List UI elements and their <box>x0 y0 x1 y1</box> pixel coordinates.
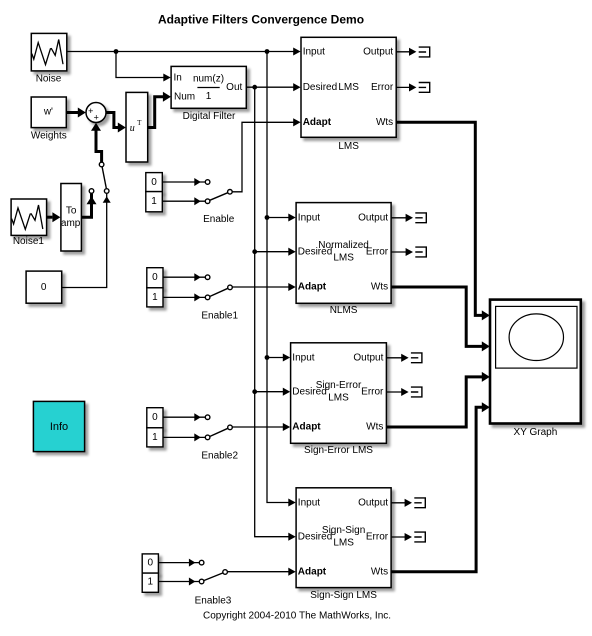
wire Enable3 const1 to switch <box>158 578 199 586</box>
svg-text:Input: Input <box>298 212 320 223</box>
source block Noise <box>31 33 67 84</box>
Enable2 constant 0 <box>147 408 163 428</box>
block XY Graph <box>490 300 581 438</box>
node busB to NLMS <box>252 249 257 254</box>
svg-text:Enable: Enable <box>203 214 235 225</box>
Enable2 manual switch <box>205 415 232 440</box>
svg-text:Output: Output <box>358 212 388 223</box>
svg-text:Enable1: Enable1 <box>201 311 238 322</box>
svg-text:Input: Input <box>303 46 325 57</box>
Enable1 manual switch <box>205 275 232 300</box>
wire Enable2 const0 to switch <box>163 413 205 421</box>
wire Enable2 switch to Sign-Error Adapt <box>233 423 291 431</box>
block NLMS <box>296 203 391 317</box>
wire Weights to Sum (thick) <box>66 108 86 118</box>
svg-text:XY Graph: XY Graph <box>514 427 558 438</box>
node junction on Noise wire (to Digital Filter) <box>114 49 119 54</box>
svg-text:Noise1: Noise1 <box>13 236 45 247</box>
terminator (Sign-Error Output) <box>386 353 422 363</box>
svg-text:1: 1 <box>152 432 158 443</box>
svg-text:Wts: Wts <box>371 282 388 293</box>
wire Enable2 const1 to switch <box>163 433 205 441</box>
svg-text:1: 1 <box>152 292 158 303</box>
svg-text:LMS: LMS <box>333 253 354 264</box>
svg-text:To: To <box>66 206 77 217</box>
svg-text:Adapt: Adapt <box>298 566 327 577</box>
svg-text:Normalized: Normalized <box>318 240 369 251</box>
svg-text:Wts: Wts <box>376 117 393 128</box>
svg-text:Sign-Error LMS: Sign-Error LMS <box>304 445 373 456</box>
svg-text:Adapt: Adapt <box>292 422 321 433</box>
wire Enable1 const1 to switch <box>163 293 205 301</box>
wire Enable const0 to switch <box>162 178 205 186</box>
wire Noise1 to To Sample (thick) <box>47 212 61 222</box>
svg-text:0: 0 <box>152 272 158 283</box>
wire Enable3 switch to Sign-Sign Adapt <box>228 568 296 576</box>
terminator (NLMS Output) <box>391 213 426 223</box>
wire busA branch to NLMS Input <box>267 213 296 221</box>
block To Sample <box>54 184 88 252</box>
sum junction <box>86 103 106 123</box>
terminator (Sign-Error Error) <box>386 387 422 397</box>
svg-text:Wts: Wts <box>366 422 383 433</box>
svg-text:Info: Info <box>50 421 68 433</box>
wire Sum to uT (thick) <box>106 113 126 133</box>
terminator (NLMS Error) <box>391 247 426 257</box>
svg-text:LMS: LMS <box>338 82 359 93</box>
Enable constant 0 <box>146 173 163 192</box>
svg-text:Output: Output <box>358 497 388 508</box>
svg-text:u: u <box>130 123 135 134</box>
wire NLMS Wts to XY Graph in2 (thick) <box>391 287 490 351</box>
svg-text:num(z): num(z) <box>193 73 224 84</box>
svg-text:Output: Output <box>363 46 393 57</box>
wire uT to Digital Filter Num (thick) <box>148 92 171 128</box>
Enable manual switch <box>205 180 232 204</box>
Enable constant 1 <box>146 192 163 212</box>
block Sign-Sign LMS <box>296 488 391 601</box>
node busA to NLMS <box>265 215 270 220</box>
Enable3 manual switch <box>199 560 227 584</box>
terminator (Sign-Sign Error) <box>391 532 425 542</box>
svg-text:Error: Error <box>371 82 394 93</box>
node busA to Sign-Error <box>265 355 270 360</box>
terminator (LMS Output) <box>396 47 430 57</box>
svg-text:+: + <box>88 106 93 116</box>
svg-text:LMS: LMS <box>338 141 359 152</box>
wire Enable const1 to switch <box>162 197 205 205</box>
wire Enable1 const0 to switch <box>163 273 205 281</box>
svg-text:Error: Error <box>366 532 389 543</box>
block uT <box>126 92 148 162</box>
wire Constant 0 to switch right throw <box>62 194 111 288</box>
svg-text:1: 1 <box>151 196 157 207</box>
svg-text:Wts: Wts <box>371 566 388 577</box>
Enable3 constant 1 <box>142 573 158 592</box>
wire busB vertical to Sign-Sign Desired <box>255 87 296 541</box>
svg-text:Sign-Sign: Sign-Sign <box>322 525 365 536</box>
svg-text:0: 0 <box>152 412 158 423</box>
wire Sign-Sign Wts to XY Graph in4 (thick) <box>391 402 490 571</box>
wire busB branch to Sign-Error Desired <box>255 388 291 396</box>
svg-text:Adapt: Adapt <box>303 117 332 128</box>
node junction busA top <box>265 49 270 54</box>
Enable1 constant 0 <box>147 268 163 288</box>
svg-text:w': w' <box>43 107 53 118</box>
block Sign-Error LMS <box>291 343 387 456</box>
constant 0 (for manual switch) <box>26 271 62 303</box>
svg-text:Enable2: Enable2 <box>201 451 238 462</box>
wire LMS Wts to XY Graph in1 (thick) <box>396 122 490 320</box>
svg-text:Adaptive Filters Convergence D: Adaptive Filters Convergence Demo <box>158 13 364 27</box>
Enable3 constant 0 <box>142 554 158 573</box>
svg-text:1: 1 <box>206 91 212 102</box>
svg-text:0: 0 <box>41 282 47 293</box>
svg-text:NLMS: NLMS <box>330 305 358 316</box>
svg-text:Enable3: Enable3 <box>195 596 232 607</box>
terminator (LMS Error) <box>396 83 430 93</box>
svg-text:In: In <box>174 72 182 83</box>
wire Enable switch to LMS Adapt <box>232 118 300 192</box>
svg-text:Input: Input <box>298 497 320 508</box>
svg-text:LMS: LMS <box>328 393 349 404</box>
svg-text:Error: Error <box>366 247 389 258</box>
svg-text:Sign-Error: Sign-Error <box>316 380 362 391</box>
svg-text:Digital Filter: Digital Filter <box>183 111 236 122</box>
wire To Sample to switch left throw (thick) <box>81 194 96 218</box>
manual switch (top, feeds sum) <box>89 162 109 193</box>
wire Digital Filter Out to LMS Desired <box>246 83 300 91</box>
svg-text:Copyright 2004-2010 The MathWo: Copyright 2004-2010 The MathWorks, Inc. <box>203 611 391 622</box>
svg-text:Out: Out <box>226 82 242 93</box>
svg-text:0: 0 <box>148 558 154 569</box>
wire busA vertical to Sign-Sign Input <box>267 52 296 507</box>
wire busB branch to NLMS Desired <box>255 248 296 256</box>
svg-text:Sign-Sign LMS: Sign-Sign LMS <box>310 590 377 601</box>
svg-text:LMS: LMS <box>333 538 354 549</box>
wire busA branch to Sign-Error Input <box>267 353 290 361</box>
block Digital Filter <box>171 66 246 122</box>
terminator (Sign-Sign Output) <box>391 498 425 508</box>
wire Enable3 const0 to switch <box>158 559 199 567</box>
svg-text:Input: Input <box>292 352 314 363</box>
svg-text:Num: Num <box>174 92 195 103</box>
node junction busB top <box>252 85 257 90</box>
svg-text:Adapt: Adapt <box>298 282 327 293</box>
block LMS <box>301 37 396 152</box>
wire branch to Digital Filter In <box>116 52 171 82</box>
svg-text:0: 0 <box>151 177 157 188</box>
wire Manual Switch to Sum (thick) <box>91 123 102 163</box>
Enable2 constant 1 <box>147 428 163 447</box>
svg-text:Noise: Noise <box>36 73 62 84</box>
svg-text:T: T <box>137 119 142 127</box>
Info block <box>33 401 84 451</box>
node busB to Sign-Error <box>252 389 257 394</box>
wire Sign-Error Wts to XY Graph in3 (thick) <box>386 372 489 427</box>
svg-text:1: 1 <box>148 577 154 588</box>
source block Noise1 <box>11 199 47 247</box>
svg-text:Sample: Sample <box>54 218 88 229</box>
wire Noise to LMS Input <box>67 47 301 55</box>
source block Weights <box>31 97 67 141</box>
wire Enable1 switch to NLMS Adapt <box>233 283 296 291</box>
svg-text:+: + <box>94 113 99 123</box>
Enable1 constant 1 <box>147 288 163 307</box>
svg-text:Desired: Desired <box>303 82 337 93</box>
svg-text:Weights: Weights <box>31 130 67 141</box>
svg-text:Error: Error <box>361 387 384 398</box>
svg-text:Output: Output <box>353 352 383 363</box>
